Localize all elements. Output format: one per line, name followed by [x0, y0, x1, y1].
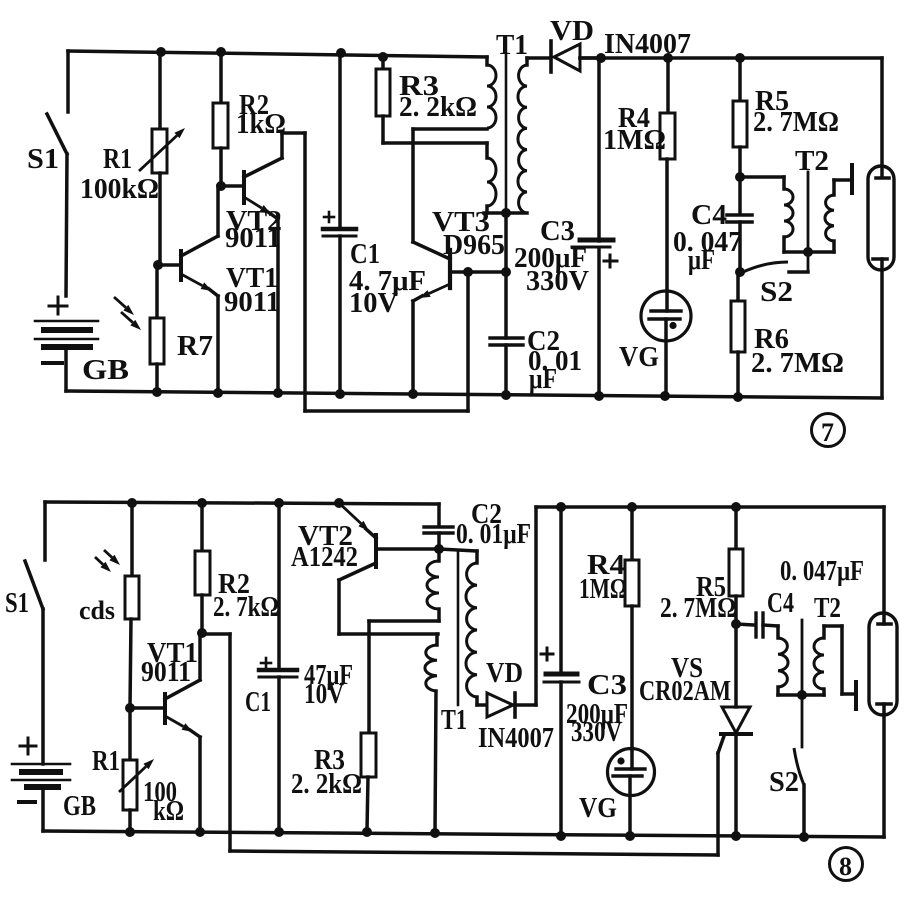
- node R5 top fig8: [731, 502, 741, 512]
- wire T1 to C2: [504, 213, 508, 338]
- node cds top: [127, 498, 137, 508]
- node R6 ground: [733, 392, 743, 402]
- node C3 ground fig8: [556, 831, 566, 841]
- transformer T1 fig8 primary winding: [435, 634, 439, 645]
- svg-text:S2: S2: [760, 277, 793, 308]
- resistor R6: [736, 272, 740, 301]
- light arrows at cds: [95, 557, 103, 565]
- svg-text:1MΩ: 1MΩ: [603, 125, 666, 156]
- node T2 center tap fig8: [797, 690, 807, 700]
- wire T1 primary to VT3 collector: [413, 127, 487, 131]
- svg-text:VD: VD: [486, 658, 523, 689]
- neon lamp VG: [641, 291, 691, 341]
- capacitor C3 (200uF 330V): [597, 58, 601, 241]
- svg-text:VD: VD: [550, 16, 594, 47]
- svg-text:D965: D965: [443, 230, 505, 261]
- fluorescent tube: [868, 166, 894, 270]
- svg-text:VG: VG: [579, 793, 617, 824]
- node R2 top: [216, 47, 226, 57]
- transformer T2 fig8 primary: [776, 626, 780, 638]
- svg-text:1MΩ: 1MΩ: [579, 574, 627, 605]
- transformer T2 core fig8: [801, 620, 804, 747]
- transformer T2 secondary fig8: [814, 638, 824, 689]
- node VT3 base / C2: [501, 267, 511, 277]
- svg-text:IN4007: IN4007: [478, 723, 554, 754]
- fluorescent tube fig8: [869, 613, 897, 715]
- node R2 top fig8: [197, 498, 207, 508]
- svg-text:CR02AM: CR02AM: [639, 676, 731, 707]
- node R3 top: [378, 52, 388, 62]
- svg-text:C1: C1: [245, 687, 271, 718]
- transformer T2 secondary: [825, 195, 834, 241]
- node VT1 emitter ground fig8: [195, 827, 205, 837]
- node VT1 emitter ground: [213, 388, 223, 398]
- capacitor C4 (0.047uF): [738, 177, 742, 214]
- svg-text:IN4007: IN4007: [604, 29, 691, 60]
- thyristor VS (CR02AM): [734, 624, 738, 707]
- node VT2 emitter ground: [273, 388, 283, 398]
- node T1 windings bottom: [501, 208, 511, 218]
- battery GB fig8: [27, 738, 30, 754]
- wire top rail left (battery + bus): [68, 51, 487, 57]
- capacitor C1 (4.7uF electrolytic): [338, 53, 342, 229]
- node VD cathode / C3 top: [596, 53, 606, 63]
- svg-text:1kΩ: 1kΩ: [236, 109, 286, 140]
- resistor R1 fig8 (variable): [128, 708, 132, 760]
- svg-text:A1242: A1242: [291, 542, 358, 573]
- svg-text:cds: cds: [79, 596, 115, 625]
- transformer T1 fig8 base winding: [437, 549, 441, 561]
- svg-text:9011: 9011: [141, 657, 191, 688]
- node S2 ground fig8: [799, 832, 809, 842]
- svg-text:10V: 10V: [304, 679, 344, 710]
- resistor R4: [666, 58, 670, 113]
- node R1 top: [156, 47, 166, 57]
- svg-text:R1: R1: [92, 746, 120, 777]
- node R3 ground fig8: [362, 827, 372, 837]
- svg-text:2. 2kΩ: 2. 2kΩ: [399, 92, 477, 123]
- node VG ground: [660, 391, 670, 401]
- node cds/R1/VT1 base: [125, 703, 135, 713]
- resistor R5 fig8: [734, 507, 738, 549]
- node VS cathode ground: [731, 831, 741, 841]
- switch S1: [66, 51, 70, 112]
- svg-text:2. 7MΩ: 2. 7MΩ: [753, 107, 839, 138]
- svg-text:330V: 330V: [571, 717, 622, 748]
- resistor R1 (variable): [158, 52, 162, 129]
- capacitor C2 (0.01uF): [490, 336, 523, 339]
- switch S1 fig8: [43, 502, 47, 560]
- label circled 8: [830, 848, 863, 881]
- svg-text:GB: GB: [82, 355, 129, 386]
- svg-text:7: 7: [821, 418, 834, 447]
- battery GB: [57, 297, 60, 314]
- switch S2 fig8: [794, 748, 804, 785]
- tube pin terminal fig8: [854, 682, 858, 709]
- node VG ground fig8: [625, 831, 635, 841]
- svg-text:8: 8: [839, 852, 852, 881]
- capacitor C3 fig8 (200uF 330V): [559, 507, 563, 674]
- neon lamp VG fig8: [608, 749, 655, 796]
- svg-text:2. 7MΩ: 2. 7MΩ: [660, 593, 736, 624]
- svg-text:T2: T2: [814, 593, 841, 624]
- svg-text:R1: R1: [103, 144, 132, 175]
- wire right edge to tube top: [880, 58, 884, 177]
- diode VD (IN4007): [527, 56, 549, 60]
- transformer T1 core: [505, 54, 508, 213]
- transformer T1 secondary winding: [525, 58, 529, 65]
- node C4/R6/S2: [735, 267, 745, 277]
- transformer T2 primary: [740, 175, 784, 179]
- transformer T1 feedback winding: [485, 143, 489, 158]
- transistor VT1 (9011): [179, 251, 183, 280]
- wire top rail right (HV bus) fig8: [536, 505, 884, 509]
- tube pin terminal: [850, 165, 854, 193]
- svg-text:9011: 9011: [224, 287, 280, 318]
- resistor R2 fig8: [200, 503, 204, 551]
- resistor R3: [381, 57, 385, 69]
- photoresistor R7: [155, 265, 159, 318]
- node R1 ground fig8: [125, 827, 135, 837]
- node R1/R7/VT1 base: [153, 260, 163, 270]
- node R4 top: [663, 53, 673, 63]
- svg-text:2. 7kΩ: 2. 7kΩ: [213, 592, 279, 623]
- wire VT2 collector to VT3 base (feedback): [280, 133, 284, 158]
- node C3 ground: [594, 391, 604, 401]
- node R5/C4/VS anode fig8: [731, 619, 741, 629]
- node C1 ground: [335, 389, 345, 399]
- node T1 primary ground fig8: [430, 828, 440, 838]
- svg-text:T2: T2: [795, 146, 829, 177]
- node C1 top: [336, 48, 346, 58]
- node R2/VT1 collector/VT2 base: [216, 181, 226, 191]
- svg-text:T1: T1: [441, 705, 467, 736]
- capacitor C1 fig8 (47uF): [277, 503, 281, 670]
- svg-text:S2: S2: [769, 767, 799, 798]
- svg-text:0. 01μF: 0. 01μF: [456, 519, 531, 550]
- svg-text:μF: μF: [688, 245, 715, 276]
- capacitor C4 fig8 (0.047uF): [736, 624, 754, 625]
- resistor R4 fig8: [630, 507, 634, 560]
- node VT2 base / C2 fig8: [434, 544, 444, 554]
- svg-text:μF: μF: [529, 364, 557, 395]
- wire bottom rail (ground bus): [66, 391, 882, 398]
- node T2 center tap: [803, 247, 813, 257]
- light arrows at R7: [114, 297, 126, 308]
- transistor VT2 fig8 (A1242 PNP): [374, 535, 378, 567]
- svg-text:GB: GB: [63, 791, 96, 822]
- resistor R5: [738, 58, 742, 101]
- node C1 ground fig8: [274, 827, 284, 837]
- node VT3 emitter ground: [408, 389, 418, 399]
- node R7 ground: [152, 387, 162, 397]
- wire bottom rail fig8: [43, 831, 884, 837]
- node C2 ground: [501, 390, 511, 400]
- resistor R2: [219, 52, 223, 103]
- svg-text:T1: T1: [496, 30, 528, 61]
- svg-text:C3: C3: [587, 670, 627, 701]
- node R5/C4/T2: [735, 172, 745, 182]
- node C1 top fig8: [274, 498, 284, 508]
- svg-text:2. 7MΩ: 2. 7MΩ: [751, 348, 844, 379]
- svg-text:330V: 330V: [526, 266, 589, 297]
- switch S2: [743, 262, 788, 272]
- svg-text:R7: R7: [177, 331, 213, 362]
- node R2/VT1 collector fig8: [197, 628, 207, 638]
- svg-text:S1: S1: [27, 144, 59, 175]
- transistor VT1 fig8 (9011): [163, 694, 167, 723]
- capacitor C2 fig8 (0.01uF): [437, 504, 441, 526]
- transformer T1 core fig8: [457, 551, 460, 705]
- svg-text:kΩ: kΩ: [153, 796, 184, 827]
- node VT2 emitter top fig8: [334, 498, 344, 508]
- svg-text:C4: C4: [767, 588, 794, 619]
- wire top rail left (battery bus) fig8: [45, 502, 439, 504]
- svg-text:S1: S1: [5, 588, 29, 619]
- node R5 top: [735, 53, 745, 63]
- svg-text:9011: 9011: [225, 223, 281, 254]
- label circled 7: [812, 414, 845, 447]
- transformer T2 core: [807, 172, 810, 272]
- node C3 top fig8: [556, 502, 566, 512]
- transformer T1 primary top winding: [485, 57, 489, 65]
- svg-text:VG: VG: [619, 342, 659, 373]
- transformer T1 secondary fig8: [439, 549, 477, 551]
- transistor VT2 (9011): [242, 172, 246, 203]
- svg-text:10V: 10V: [349, 288, 398, 319]
- svg-text:0. 047μF: 0. 047μF: [780, 556, 864, 587]
- resistor R3 fig8: [361, 733, 376, 777]
- transistor VT3 (D965): [448, 250, 452, 288]
- photoresistor cds: [130, 503, 134, 576]
- node R4 top fig8: [627, 502, 637, 512]
- wire collector feedback to VS gate: [202, 632, 230, 636]
- node VT3 base feedback: [463, 267, 473, 277]
- svg-text:100kΩ: 100kΩ: [80, 174, 159, 205]
- diode VD fig8 (IN4007): [487, 693, 513, 717]
- wire top rail right (HV bus): [580, 56, 882, 60]
- svg-text:2. 2kΩ: 2. 2kΩ: [291, 769, 362, 800]
